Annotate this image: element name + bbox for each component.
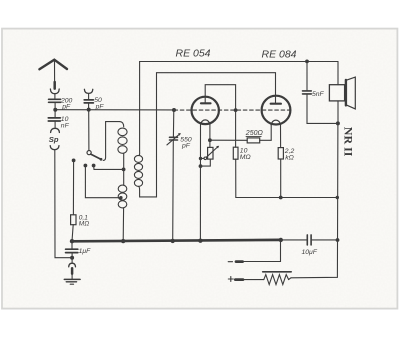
- speaker LS: [337, 62, 339, 85]
- wire filament rail: [210, 139, 247, 141]
- svg-text:nF: nF: [61, 122, 70, 129]
- socket cup (coil socket bottom): [50, 146, 59, 150]
- label underline 250: [246, 135, 261, 137]
- node coil tap: [119, 196, 122, 199]
- wire rheostat to right column: [289, 278, 291, 280]
- node right bus junction: [336, 238, 340, 242]
- ground bus (thick): [72, 240, 281, 241]
- svg-text:pF: pF: [181, 143, 191, 150]
- wire to ground connector: [71, 258, 73, 263]
- node grid V2 junction: [234, 108, 238, 112]
- wire contact C to coil mid: [94, 166, 124, 170]
- node 50pF junction: [87, 108, 91, 112]
- switch S1 pivot: [87, 151, 91, 155]
- resistor R2 heater rheostat (variable): [208, 147, 213, 159]
- node 2.2k bottom: [279, 196, 283, 200]
- plug dome (ground connector): [69, 263, 76, 267]
- svg-text:pF: pF: [95, 104, 105, 111]
- wire plus to rheostat: [243, 279, 264, 281]
- wire V1 filament left leg: [199, 125, 201, 242]
- svg-text:5nF: 5nF: [312, 91, 325, 98]
- top rail: [140, 61, 338, 63]
- resistor R3 10M: [235, 110, 237, 147]
- plug pin (ground connector): [71, 268, 74, 273]
- inductor L2 (secondary coil): [139, 62, 140, 156]
- node 5nF rail junction: [305, 60, 309, 64]
- node 550pF junction: [172, 108, 176, 112]
- svg-text:250Ω: 250Ω: [245, 130, 264, 137]
- resistor R6 filament rheostat zigzag: [264, 275, 289, 285]
- switch contact C: [92, 164, 96, 168]
- wire R2 bottom link: [201, 159, 211, 166]
- rheostat slider bar: [263, 271, 292, 273]
- plug pin (antenna connector): [53, 82, 56, 89]
- svg-text:10μF: 10μF: [302, 249, 318, 256]
- wire contact B to coil tap: [85, 166, 120, 198]
- switch S1 lever: [91, 154, 101, 159]
- wire V1 filament right leg: [209, 125, 211, 148]
- tube V2 RE084: [262, 96, 291, 125]
- node antenna junction: [53, 108, 57, 112]
- node bus right end: [279, 238, 283, 242]
- node speaker bottom junction: [336, 121, 340, 125]
- node bus left end: [70, 239, 74, 243]
- node bus L1: [121, 239, 125, 243]
- inductor L1a (antenna coil top section): [120, 122, 124, 127]
- resistor R4 250ohm: [247, 138, 260, 143]
- capacitor C1 200pF: [54, 94, 56, 98]
- switch contact B: [84, 164, 88, 168]
- node coil mid junction: [122, 168, 126, 172]
- tube V1 RE054: [192, 97, 219, 124]
- wire V2 filament right leg: [280, 125, 282, 148]
- svg-text:MΩ: MΩ: [240, 154, 251, 161]
- capacitor C5 5nF: [306, 61, 308, 90]
- svg-text:Sp: Sp: [49, 135, 59, 144]
- switch contact A: [72, 159, 76, 163]
- wire grid tuning line (solid part): [55, 109, 174, 111]
- antenna: [39, 60, 67, 69]
- wire contact A to R1: [72, 160, 74, 214]
- capacitor C6 1uF: [71, 241, 73, 248]
- resistor R1 0.1M box: [71, 215, 76, 225]
- battery minus terminal: [228, 261, 232, 263]
- wire minus to bus: [243, 240, 281, 262]
- capacitor C4 550pF variable: [172, 110, 174, 137]
- capacitor C7 10uF: [281, 239, 307, 241]
- resistor R5 2.2k: [278, 148, 283, 159]
- wire right column: [291, 123, 338, 277]
- ground: [64, 278, 80, 280]
- wire anode V1 coupling rectangle: [205, 85, 235, 110]
- plug dome (coil socket top): [51, 128, 60, 132]
- svg-text:RE 054: RE 054: [176, 47, 211, 59]
- wire grid line dashed through tubes: [174, 109, 290, 111]
- capacitor C2 10nF: [54, 110, 56, 117]
- node ground junction: [70, 256, 74, 260]
- wire antenna column down: [55, 150, 72, 258]
- capacitor C3 50pF: [88, 94, 90, 99]
- wire R1 to bus: [72, 225, 73, 242]
- wire switch throw to coil top: [103, 122, 120, 161]
- svg-text:NR II: NR II: [342, 127, 356, 157]
- node bus V1 leg: [198, 239, 202, 243]
- svg-text:MΩ: MΩ: [79, 221, 89, 228]
- socket cup (antenna connector): [50, 89, 59, 94]
- svg-text:RE 084: RE 084: [262, 48, 297, 60]
- svg-text:kΩ: kΩ: [285, 155, 294, 162]
- svg-text:pF: pF: [61, 103, 71, 110]
- inductor L1b (antenna coil bottom section): [123, 169, 125, 185]
- switch S1 pivot wire: [88, 110, 90, 151]
- wire V2 filament left leg: [270, 125, 272, 141]
- node filament rail junction: [208, 138, 212, 142]
- node bus 550pF: [171, 239, 175, 243]
- svg-text:1μF: 1μF: [79, 248, 92, 255]
- battery plus terminal: [228, 278, 233, 280]
- socket cup (50pF input): [84, 89, 92, 93]
- wire antenna lead-in: [54, 61, 56, 83]
- node right line mid: [336, 196, 339, 199]
